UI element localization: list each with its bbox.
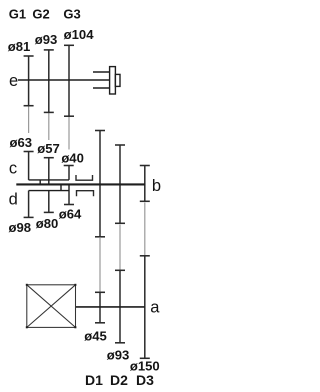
svg-text:e: e	[9, 72, 18, 90]
svg-text:D2: D2	[110, 372, 128, 388]
svg-text:G3: G3	[63, 7, 80, 22]
svg-text:ø80: ø80	[36, 216, 59, 231]
svg-text:ø93: ø93	[35, 32, 58, 47]
svg-text:ø81: ø81	[8, 39, 31, 54]
svg-text:d: d	[9, 191, 18, 209]
svg-text:c: c	[9, 160, 17, 178]
svg-text:b: b	[152, 177, 161, 195]
svg-text:ø45: ø45	[84, 329, 107, 344]
svg-text:ø93: ø93	[107, 347, 130, 362]
svg-text:D1: D1	[85, 372, 103, 388]
svg-text:ø40: ø40	[61, 150, 84, 165]
svg-text:D3: D3	[136, 372, 154, 388]
svg-text:ø98: ø98	[9, 220, 32, 235]
svg-text:ø104: ø104	[64, 27, 95, 42]
svg-text:ø64: ø64	[59, 207, 82, 222]
svg-text:ø63: ø63	[10, 135, 33, 150]
svg-text:a: a	[150, 299, 160, 317]
svg-text:G2: G2	[32, 7, 49, 22]
svg-text:ø57: ø57	[37, 141, 60, 156]
svg-text:G1: G1	[9, 7, 26, 22]
